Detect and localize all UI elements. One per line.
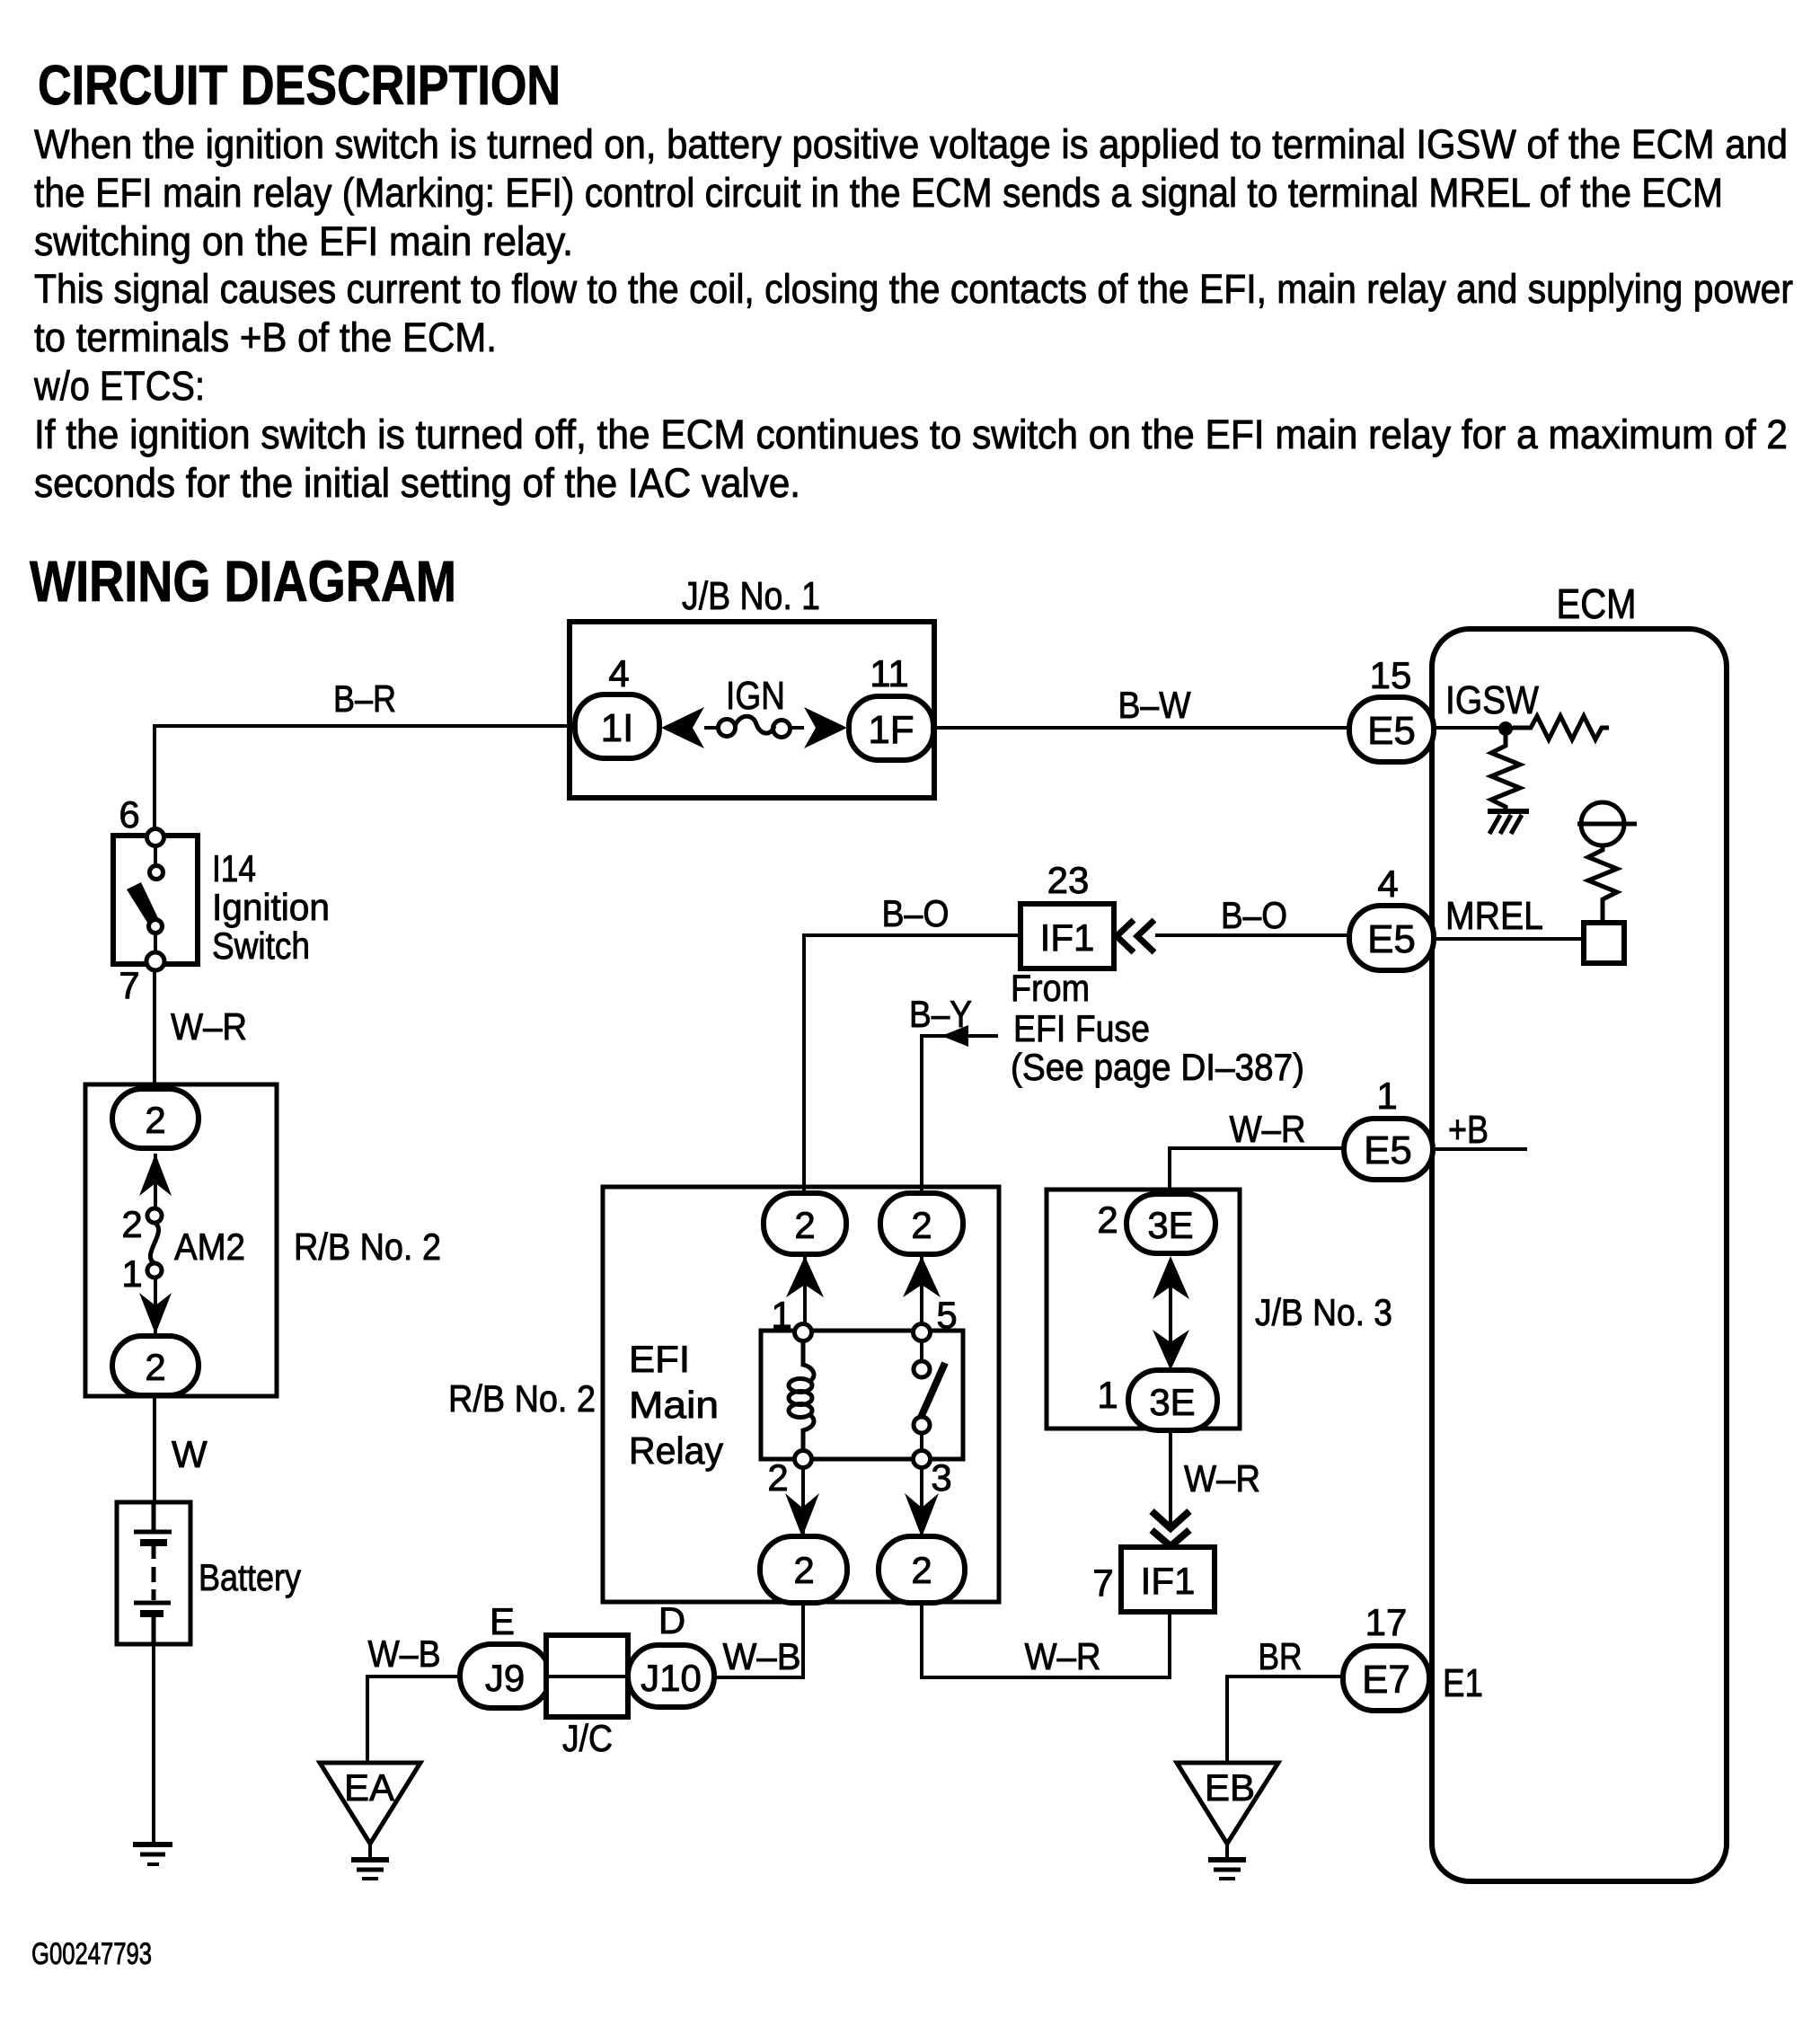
junction dot IGSW — [1498, 721, 1513, 736]
connector oval J10 — [628, 1645, 714, 1707]
connector oval 2 relay top-right — [880, 1193, 963, 1254]
svg-text:2: 2 — [911, 1204, 932, 1246]
svg-text:CIRCUIT DESCRIPTION: CIRCUIT DESCRIPTION — [38, 55, 561, 117]
relay inner box — [761, 1331, 963, 1459]
svg-text:11: 11 — [870, 652, 909, 695]
ground EA triangle — [320, 1763, 420, 1844]
svg-text:J/C: J/C — [562, 1717, 613, 1759]
svg-text:seconds for the initial settin: seconds for the initial setting of the I… — [34, 460, 800, 506]
fuse AM2 — [147, 1208, 162, 1223]
svg-text:15: 15 — [1370, 654, 1412, 696]
svg-text:W–B: W–B — [368, 1632, 441, 1675]
svg-text:G00247793: G00247793 — [31, 1937, 152, 1971]
ground EA symbol — [368, 1844, 372, 1858]
svg-text:IF1: IF1 — [1141, 1560, 1196, 1602]
svg-text:J/B No. 1: J/B No. 1 — [682, 574, 820, 618]
svg-text:3E: 3E — [1149, 1381, 1195, 1423]
svg-text:to terminals +B of the ECM.: to terminals +B of the ECM. — [34, 314, 497, 360]
svg-text:w/o ETCS:: w/o ETCS: — [33, 363, 205, 409]
svg-text:2: 2 — [145, 1346, 165, 1388]
wire oval to pin 5 with up arrow — [920, 1254, 923, 1324]
connector oval 2 relay bottom-left — [760, 1536, 847, 1603]
MREL driver resistor — [1588, 845, 1617, 923]
svg-text:D: D — [658, 1599, 685, 1641]
wire W-B from EA to J9 — [367, 1677, 460, 1764]
svg-text:2: 2 — [1097, 1199, 1118, 1241]
wire W-B from J10 to relay — [713, 1603, 803, 1677]
wire B-W — [934, 726, 1349, 730]
relay pin 3 circle — [914, 1451, 931, 1468]
wire B-Y from relay to arrow — [922, 1036, 998, 1193]
connector oval 1I — [575, 695, 659, 758]
svg-text:B–W: B–W — [1118, 684, 1191, 726]
svg-text:1F: 1F — [868, 708, 914, 752]
svg-text:E: E — [490, 1600, 515, 1642]
junction block J/B No. 3 box — [1047, 1190, 1240, 1429]
ignition switch lever — [127, 882, 159, 925]
svg-text:W–B: W–B — [723, 1635, 801, 1677]
wire oval to pin 1 with up arrow — [803, 1254, 807, 1324]
svg-text:E7: E7 — [1362, 1658, 1410, 1702]
svg-text:(See page DI–387): (See page DI–387) — [1011, 1046, 1304, 1088]
wire IGSW internal — [1434, 726, 1513, 730]
svg-text:E1: E1 — [1443, 1661, 1483, 1705]
connector oval 1F — [849, 696, 933, 760]
resistor vertical to ground — [1491, 735, 1520, 810]
battery box — [117, 1502, 190, 1644]
svg-text:2: 2 — [145, 1099, 165, 1141]
ignition switch contact circle upper — [154, 845, 157, 866]
relay pin 5 circle — [914, 1324, 931, 1341]
wire W-R from IF1 to relay — [922, 1603, 1170, 1677]
connector IF1 box pin 7 — [1121, 1547, 1215, 1612]
ground EB symbol — [1225, 1844, 1229, 1858]
ignition switch contact circle lower — [149, 920, 163, 933]
wire fuse to arrow — [790, 726, 804, 730]
fuse IGN — [719, 720, 736, 737]
svg-text:EB: EB — [1205, 1766, 1255, 1809]
svg-text:EFI Fuse: EFI Fuse — [1013, 1007, 1150, 1049]
svg-text:IGSW: IGSW — [1445, 678, 1539, 722]
junction block J/B No. 1 box — [570, 622, 934, 798]
chevrons into IF1 — [1117, 920, 1154, 952]
svg-text:+B: +B — [1448, 1108, 1489, 1152]
svg-text:B–R: B–R — [333, 677, 396, 720]
svg-text:Main: Main — [629, 1384, 719, 1426]
connector oval 2 relay bottom-right — [879, 1536, 965, 1603]
arrow from EFI fuse — [941, 1025, 968, 1047]
svg-text:WIRING DIAGRAM: WIRING DIAGRAM — [30, 549, 456, 614]
svg-text:1I: 1I — [601, 706, 634, 750]
svg-text:2: 2 — [121, 1203, 142, 1245]
svg-text:J9: J9 — [485, 1657, 525, 1699]
svg-text:5: 5 — [936, 1294, 957, 1336]
ECM box — [1432, 629, 1727, 1881]
connector oval E5 pin 1 — [1344, 1119, 1433, 1180]
svg-text:E5: E5 — [1367, 709, 1416, 753]
connector IF1 box pin 23 — [1020, 904, 1114, 969]
relay coil — [803, 1340, 814, 1380]
svg-text:4: 4 — [608, 652, 629, 695]
svg-text:MREL: MREL — [1445, 894, 1543, 938]
connector oval 2 top — [112, 1089, 199, 1148]
ignition switch I14 box — [113, 836, 198, 964]
svg-text:B–Y: B–Y — [909, 993, 972, 1035]
svg-text:4: 4 — [1377, 863, 1398, 905]
svg-text:1: 1 — [771, 1294, 791, 1336]
connector oval 3E bottom — [1128, 1370, 1217, 1430]
svg-text:R/B No. 2: R/B No. 2 — [448, 1377, 596, 1420]
svg-text:IGN: IGN — [726, 674, 785, 718]
chevrons into IF1 pin 7 — [1152, 1511, 1189, 1546]
svg-text:EFI: EFI — [629, 1338, 690, 1380]
resistor horizontal (IGSW pull) — [1513, 716, 1609, 739]
wire B-O from relay to IF1 — [804, 935, 1020, 1193]
svg-text:the EFI main relay (Marking: E: the EFI main relay (Marking: EFI) contro… — [34, 170, 1723, 216]
svg-text:W–R: W–R — [171, 1005, 247, 1048]
wire W — [153, 1396, 156, 1504]
wire pin 2 to oval with down arrow — [801, 1467, 805, 1536]
wire arrow to fuse — [704, 726, 719, 730]
MREL driver square — [1584, 923, 1624, 963]
wire BR from EB to E7 — [1227, 1677, 1343, 1764]
ground battery — [133, 1842, 172, 1847]
connector oval E5 pin 15 — [1349, 697, 1434, 762]
svg-text:E5: E5 — [1367, 917, 1416, 961]
svg-text:This signal causes current to: This signal causes current to flow to th… — [34, 266, 1793, 312]
svg-text:B–O: B–O — [882, 892, 950, 934]
wire battery to ground — [152, 1644, 155, 1843]
svg-text:Battery: Battery — [199, 1556, 301, 1598]
svg-text:3E: 3E — [1147, 1204, 1193, 1246]
svg-text:switching on the EFI main rela: switching on the EFI main relay. — [34, 218, 573, 264]
paragraph circuit description — [33, 121, 1793, 506]
svg-text:7: 7 — [1092, 1562, 1113, 1604]
wire W-R below J/B No.3 — [1169, 1430, 1172, 1527]
wire MREL internal — [1434, 937, 1584, 941]
svg-text:Ignition: Ignition — [212, 886, 330, 928]
svg-text:EA: EA — [344, 1766, 394, 1809]
svg-text:3: 3 — [931, 1456, 951, 1499]
svg-text:1: 1 — [1097, 1374, 1118, 1416]
ground EB triangle — [1177, 1763, 1278, 1844]
svg-text:IF1: IF1 — [1040, 916, 1095, 959]
ignition switch terminal circle top — [147, 829, 164, 846]
svg-text:1: 1 — [1376, 1075, 1397, 1117]
svg-text:J/B No. 3: J/B No. 3 — [1255, 1291, 1392, 1333]
svg-text:2: 2 — [767, 1456, 788, 1499]
battery internal symbol — [152, 1504, 156, 1530]
arrow down from AM2 — [154, 1278, 157, 1336]
connector oval 3E top — [1126, 1194, 1215, 1253]
svg-text:ECM: ECM — [1557, 580, 1637, 627]
relay pin 1 circle — [795, 1324, 812, 1341]
svg-text:R/B No. 2: R/B No. 2 — [294, 1225, 441, 1268]
svg-text:23: 23 — [1047, 859, 1090, 901]
arrows between 3E ovals — [1169, 1287, 1172, 1342]
svg-text:W–R: W–R — [1184, 1457, 1260, 1500]
wire pin 3 to oval with down arrow — [920, 1467, 923, 1536]
connector oval 2 relay top-left — [764, 1193, 846, 1254]
relay switch contact — [920, 1340, 923, 1361]
ignition switch terminal circle bottom — [146, 952, 164, 970]
relay block R/B No. 2 box (AM2) — [85, 1084, 277, 1396]
wire W-R vertical — [153, 970, 156, 1084]
svg-text:2: 2 — [794, 1204, 815, 1246]
svg-text:W–R: W–R — [1230, 1108, 1306, 1150]
svg-text:J10: J10 — [641, 1657, 702, 1699]
connector oval J9 — [460, 1644, 550, 1708]
svg-text:BR: BR — [1259, 1635, 1303, 1677]
ground IGSW (hatched) — [1488, 809, 1529, 814]
svg-text:W–R: W–R — [1025, 1635, 1101, 1677]
svg-text:From: From — [1011, 967, 1090, 1009]
arrow up to oval 2 — [154, 1154, 157, 1208]
relay pin 2 circle — [795, 1451, 812, 1468]
wire W-R from E5 +B to J/B No.3 — [1170, 1148, 1344, 1195]
svg-text:Switch: Switch — [212, 925, 310, 967]
wire B-R — [155, 726, 575, 829]
svg-text:Relay: Relay — [629, 1429, 723, 1472]
svg-text:B–O: B–O — [1221, 894, 1287, 936]
wire B-O from E5 MREL — [1155, 933, 1349, 937]
connector oval E5 pin 4 — [1349, 906, 1434, 970]
connector oval E7 pin 17 — [1343, 1646, 1429, 1711]
svg-text:7: 7 — [119, 964, 139, 1006]
svg-text:1: 1 — [121, 1252, 142, 1295]
svg-text:I14: I14 — [212, 847, 256, 889]
wire +B internal — [1433, 1147, 1527, 1151]
svg-text:2: 2 — [911, 1549, 932, 1591]
svg-text:2: 2 — [793, 1549, 814, 1591]
svg-text:17: 17 — [1365, 1601, 1408, 1643]
EFI main relay box — [603, 1187, 999, 1602]
svg-text:E5: E5 — [1364, 1128, 1412, 1172]
arrow into 1I (left) — [661, 707, 704, 748]
arrow into 1F (right) — [804, 707, 847, 748]
svg-text:If the ignition switch is turn: If the ignition switch is turned off, th… — [34, 411, 1788, 457]
connector oval 2 bottom — [112, 1336, 199, 1395]
junction connector J/C box — [546, 1635, 628, 1717]
svg-text:W: W — [172, 1433, 208, 1475]
svg-text:When the ignition switch is tu: When the ignition switch is turned on, b… — [34, 121, 1788, 167]
MREL driver circle — [1581, 802, 1624, 845]
svg-text:6: 6 — [119, 793, 139, 836]
svg-text:AM2: AM2 — [174, 1225, 245, 1268]
